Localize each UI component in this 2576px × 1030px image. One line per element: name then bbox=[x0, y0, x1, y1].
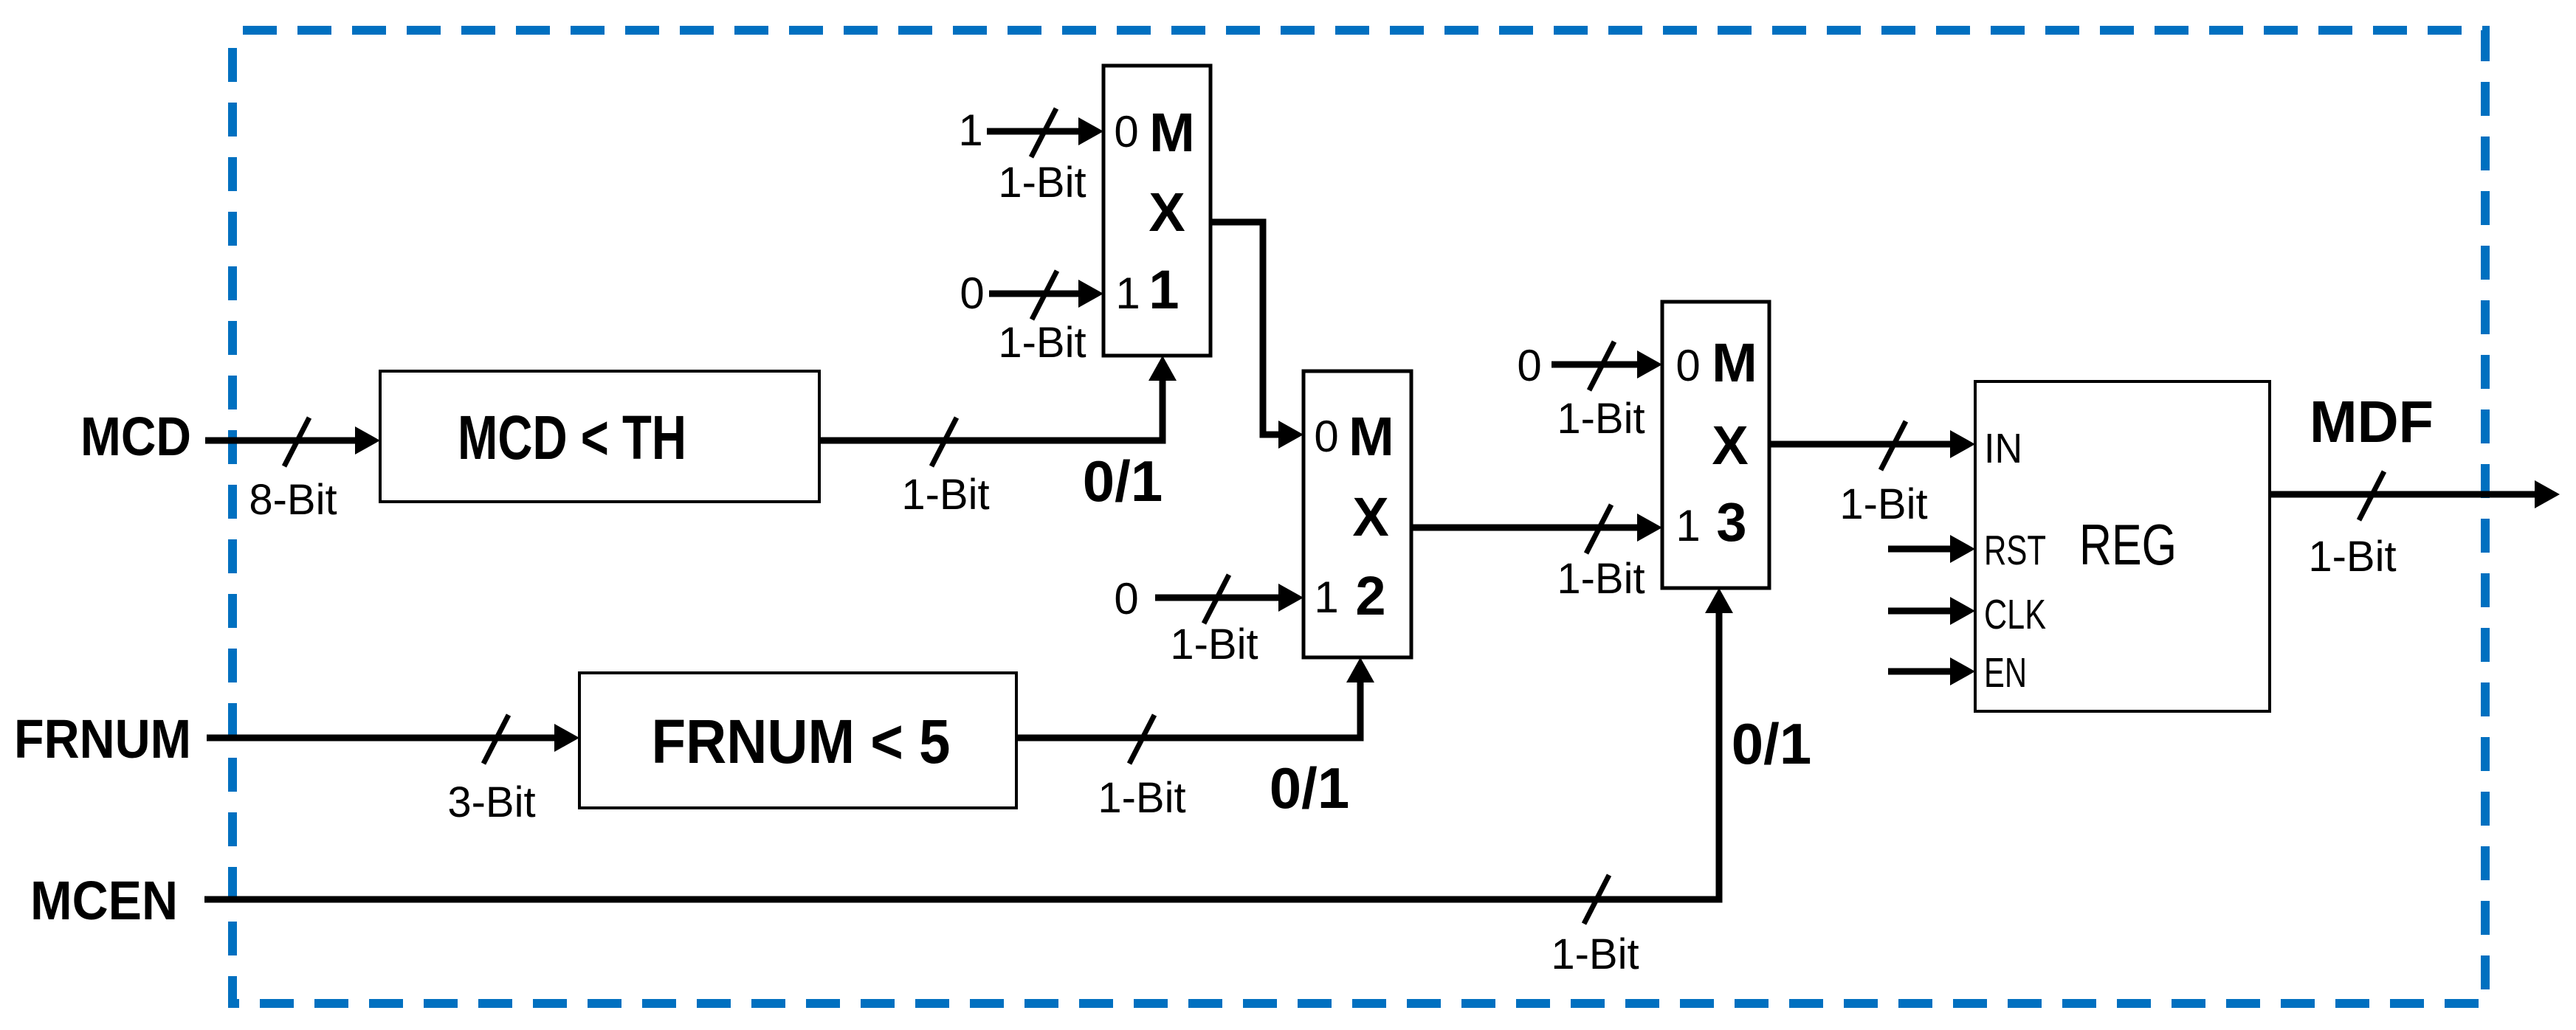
wire FRNUM<5 output to MX2 select bbox=[1016, 657, 1374, 764]
wire constant 0 to MX1 pin 1 bbox=[989, 271, 1103, 319]
svg-text:1-Bit: 1-Bit bbox=[1557, 395, 1645, 443]
svg-text:0/1: 0/1 bbox=[1270, 756, 1349, 820]
wire constant 1 to MX1 pin 0 bbox=[987, 108, 1103, 157]
comparator block FRNUM < 5 bbox=[579, 673, 1016, 808]
svg-text:1: 1 bbox=[1148, 259, 1179, 320]
wire RST input bbox=[1888, 535, 1975, 563]
wire constant 0 to MX3 pin 0 bbox=[1552, 342, 1662, 390]
svg-text:IN: IN bbox=[1984, 425, 2022, 472]
svg-text:3-Bit: 3-Bit bbox=[447, 778, 535, 826]
svg-text:8-Bit: 8-Bit bbox=[249, 476, 337, 524]
svg-text:MCEN: MCEN bbox=[30, 870, 178, 931]
svg-text:1: 1 bbox=[958, 106, 982, 155]
svg-text:X: X bbox=[1352, 486, 1388, 547]
multiplexer MX2 bbox=[1304, 371, 1411, 657]
svg-text:CLK: CLK bbox=[1984, 591, 2046, 638]
svg-text:0: 0 bbox=[960, 269, 984, 318]
svg-text:1-Bit: 1-Bit bbox=[1170, 621, 1258, 668]
wire MCD to comparator bbox=[205, 418, 380, 466]
wire MCD<TH output to MX1 select bbox=[819, 356, 1177, 466]
svg-text:FRNUM: FRNUM bbox=[14, 708, 191, 770]
svg-text:3: 3 bbox=[1716, 491, 1746, 553]
svg-text:1-Bit: 1-Bit bbox=[1551, 930, 1639, 978]
svg-text:1-Bit: 1-Bit bbox=[1839, 480, 1927, 528]
wire MX2 output to MX3 pin 1 bbox=[1411, 505, 1662, 553]
svg-text:0/1: 0/1 bbox=[1732, 711, 1811, 776]
svg-text:0: 0 bbox=[1517, 341, 1541, 390]
wire REG output MDF bbox=[2270, 471, 2560, 520]
svg-text:0: 0 bbox=[1114, 107, 1138, 156]
comparator block MCD < TH bbox=[380, 371, 819, 502]
svg-text:1-Bit: 1-Bit bbox=[2308, 533, 2396, 581]
svg-text:0: 0 bbox=[1114, 574, 1138, 623]
svg-text:1-Bit: 1-Bit bbox=[998, 319, 1086, 367]
svg-text:M: M bbox=[1349, 406, 1394, 467]
svg-text:1: 1 bbox=[1314, 573, 1338, 622]
svg-text:0/1: 0/1 bbox=[1083, 449, 1163, 514]
svg-text:REG: REG bbox=[2079, 512, 2177, 577]
svg-text:RST: RST bbox=[1984, 527, 2046, 574]
svg-text:M: M bbox=[1712, 332, 1757, 393]
wire EN input bbox=[1888, 657, 1975, 685]
svg-text:0: 0 bbox=[1676, 341, 1700, 390]
svg-text:FRNUM < 5: FRNUM < 5 bbox=[652, 707, 951, 776]
svg-text:1: 1 bbox=[1115, 269, 1140, 318]
svg-text:1-Bit: 1-Bit bbox=[1557, 555, 1645, 603]
svg-text:MCD: MCD bbox=[80, 406, 191, 467]
svg-text:0: 0 bbox=[1314, 412, 1338, 461]
multiplexer MX1 bbox=[1103, 66, 1210, 356]
register REG bbox=[1975, 381, 2270, 711]
wire constant 0 to MX2 pin 1 bbox=[1155, 575, 1304, 623]
wire MX1 output to MX2 pin 0 bbox=[1210, 222, 1304, 449]
svg-text:EN: EN bbox=[1984, 649, 2027, 697]
wire MX3 output to REG IN bbox=[1769, 421, 1975, 470]
wire FRNUM to comparator bbox=[207, 715, 579, 764]
svg-text:M: M bbox=[1149, 102, 1195, 163]
multiplexer MX3 bbox=[1662, 302, 1769, 588]
svg-text:1-Bit: 1-Bit bbox=[998, 159, 1086, 207]
wire MCEN to MX3 select bbox=[204, 588, 1733, 924]
svg-text:X: X bbox=[1148, 182, 1185, 243]
svg-text:MCD < TH: MCD < TH bbox=[458, 403, 686, 472]
svg-text:X: X bbox=[1712, 415, 1748, 476]
svg-text:1-Bit: 1-Bit bbox=[1098, 774, 1185, 822]
wire CLK input bbox=[1888, 597, 1975, 625]
svg-text:2: 2 bbox=[1355, 565, 1385, 626]
svg-text:MDF: MDF bbox=[2310, 389, 2434, 454]
svg-text:1: 1 bbox=[1676, 501, 1700, 550]
svg-text:1-Bit: 1-Bit bbox=[901, 471, 989, 519]
